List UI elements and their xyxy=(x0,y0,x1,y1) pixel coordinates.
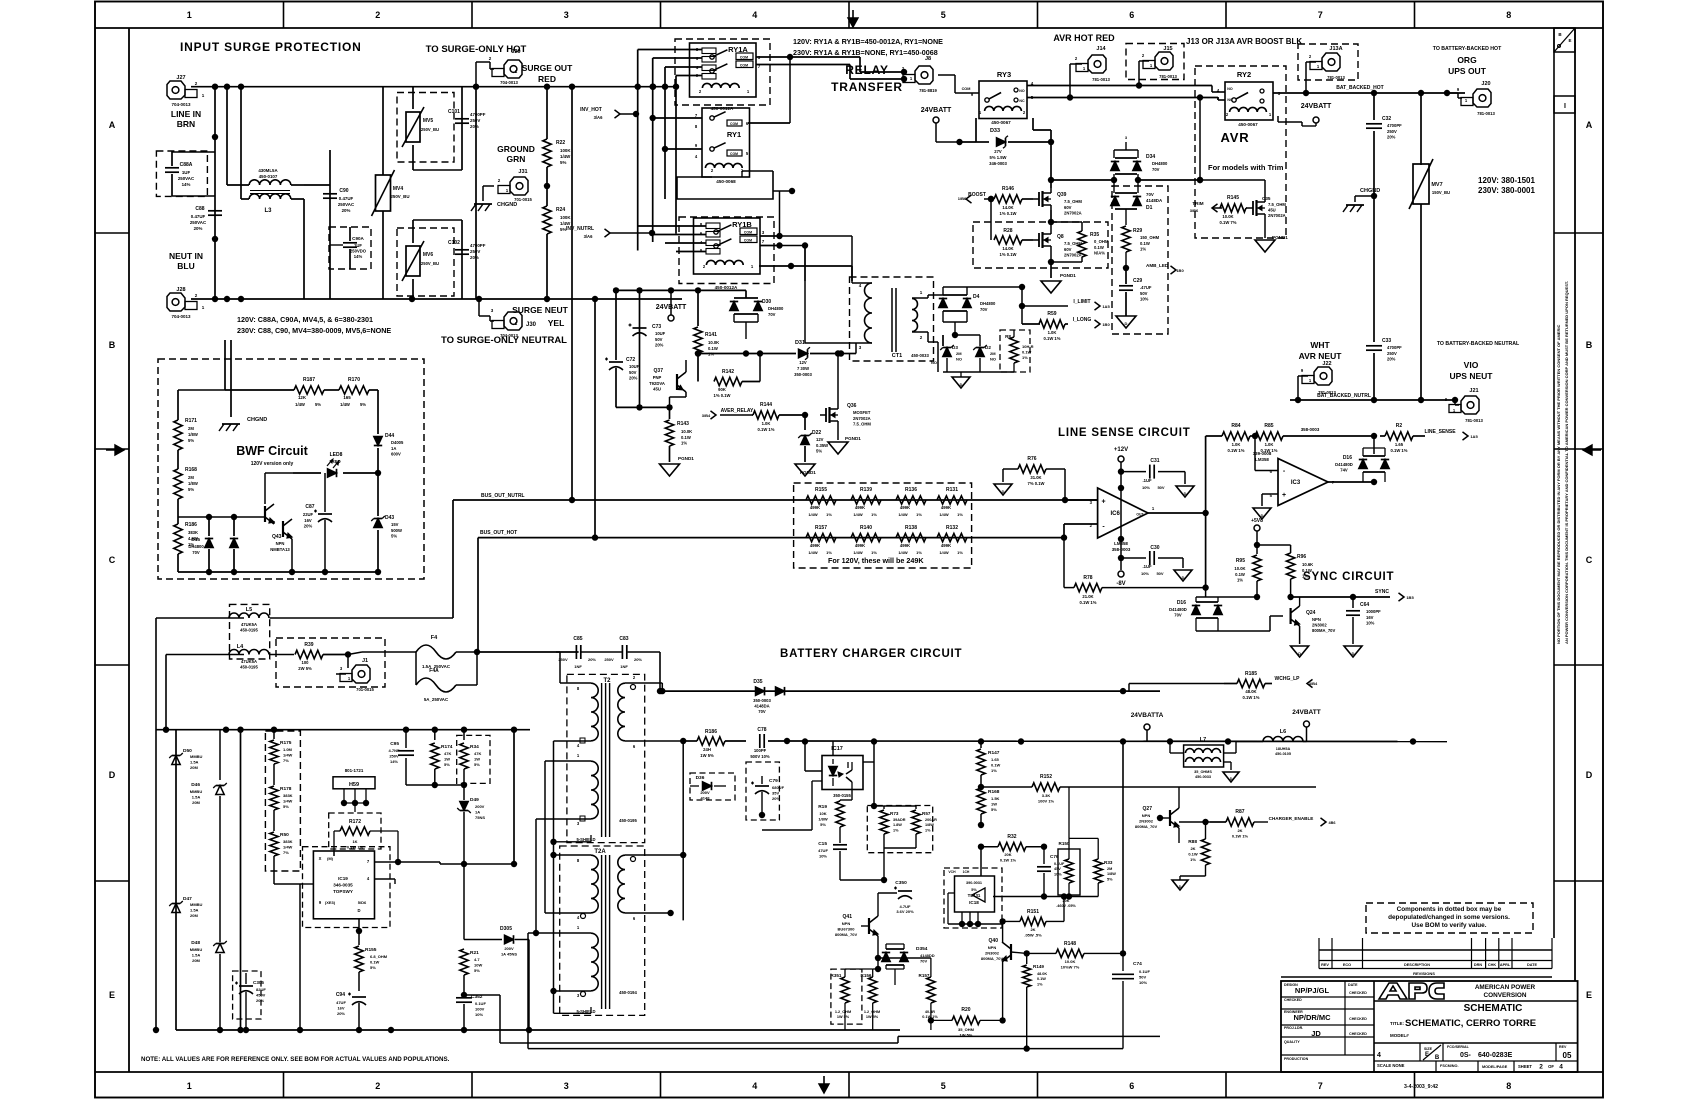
svg-text:4: 4 xyxy=(695,154,698,159)
resistor R157 xyxy=(878,958,938,1030)
svg-text:1NF: 1NF xyxy=(620,664,628,669)
net flag INV_NUTRL xyxy=(566,226,655,239)
resistor R151 xyxy=(999,893,1067,937)
note dotted box xyxy=(1366,903,1533,933)
mosfet Q39 xyxy=(1033,188,1082,222)
svg-text:2: 2 xyxy=(1539,1064,1543,1071)
svg-text:COM: COM xyxy=(730,122,738,126)
svg-text:10.0K: 10.0K xyxy=(681,429,692,434)
resistor R186b xyxy=(174,499,198,572)
svg-text:NO: NO xyxy=(931,360,937,365)
svg-text:DATE: DATE xyxy=(1527,963,1538,967)
svg-text:CHGND: CHGND xyxy=(497,202,517,208)
svg-text:383K: 383K xyxy=(283,839,293,844)
svg-text:GROUND: GROUND xyxy=(497,144,535,154)
wire BUS_OUT_NUTRL xyxy=(453,87,1097,618)
svg-text:450-0194: 450-0194 xyxy=(619,990,637,995)
svg-text:1/4W: 1/4W xyxy=(283,798,293,803)
resistor R33 xyxy=(1069,787,1116,897)
svg-text:1/4W: 1/4W xyxy=(939,512,949,517)
svg-text:NPN: NPN xyxy=(1142,813,1151,818)
wire link surge to charger1 xyxy=(150,618,152,745)
svg-text:REVISIONS: REVISIONS xyxy=(1413,971,1435,976)
svg-text:WCHG_LP: WCHG_LP xyxy=(1275,676,1301,682)
diode D305 xyxy=(464,864,529,1030)
svg-text:J8: J8 xyxy=(925,56,931,62)
svg-text:J20: J20 xyxy=(1481,81,1490,87)
svg-text:Q40: Q40 xyxy=(989,938,999,944)
svg-text:0.1W 1%: 0.1W 1% xyxy=(1044,336,1061,341)
svg-text:0.1W: 0.1W xyxy=(708,346,718,351)
transformer T2 box xyxy=(567,674,645,842)
resistor R32 xyxy=(981,834,1047,863)
label WHT AVR NEUT xyxy=(1299,340,1343,361)
svg-text:D4: D4 xyxy=(973,294,980,300)
capacitor C88A xyxy=(156,151,215,196)
svg-text:R84: R84 xyxy=(1231,423,1240,429)
svg-text:3/B4: 3/B4 xyxy=(702,413,711,418)
svg-text:9: 9 xyxy=(319,900,322,905)
wire q27 to r87 xyxy=(1179,821,1226,823)
wire 24v top rail xyxy=(613,287,746,293)
svg-text:20%: 20% xyxy=(655,343,664,348)
svg-text:X: X xyxy=(319,856,322,861)
svg-text:INV_NUTRL: INV_NUTRL xyxy=(566,226,594,232)
svg-text:230V: 380-0001: 230V: 380-0001 xyxy=(1478,186,1535,195)
svg-text:1%: 1% xyxy=(916,512,922,517)
svg-text:450-0033: 450-0033 xyxy=(911,353,929,358)
svg-text:-: - xyxy=(1283,468,1286,475)
svg-text:L3: L3 xyxy=(264,208,272,214)
wire col 240 xyxy=(237,730,243,1034)
svg-text:701-0015: 701-0015 xyxy=(356,687,374,692)
diode D44 xyxy=(374,433,404,457)
svg-text:7.5_OHM: 7.5_OHM xyxy=(1268,202,1286,207)
svg-text:RED: RED xyxy=(538,74,556,84)
svg-text:499K: 499K xyxy=(855,543,866,548)
svg-text:10%: 10% xyxy=(1140,297,1149,302)
svg-text:PRODUCTION: PRODUCTION xyxy=(1284,1057,1309,1061)
svg-text:450-0033: 450-0033 xyxy=(1195,775,1211,779)
svg-text:8: 8 xyxy=(577,858,580,863)
svg-text:E: E xyxy=(1568,38,1571,43)
svg-text:R139: R139 xyxy=(860,487,872,493)
svg-text:1A: 1A xyxy=(475,809,480,814)
wire charger bottom rail xyxy=(176,1027,900,1033)
svg-text:20%: 20% xyxy=(470,124,479,129)
svg-text:BAT_BACKED_NUTRL: BAT_BACKED_NUTRL xyxy=(1317,393,1371,399)
svg-text:800MA_70V: 800MA_70V xyxy=(835,932,858,937)
svg-text:1.0K: 1.0K xyxy=(1232,442,1241,447)
svg-text:B: B xyxy=(1435,1055,1440,1061)
svg-text:7: 7 xyxy=(1318,1081,1323,1091)
svg-text:4/B4: 4/B4 xyxy=(1309,681,1318,686)
svg-text:D: D xyxy=(1298,652,1301,656)
zener D46 xyxy=(190,730,227,860)
resistor R22 xyxy=(543,87,572,186)
svg-text:20%: 20% xyxy=(1387,357,1396,362)
svg-text:2N7002A: 2N7002A xyxy=(1064,211,1082,216)
svg-text:CT1: CT1 xyxy=(892,353,902,359)
svg-text:1UF: 1UF xyxy=(354,243,362,248)
svg-text:T2A: T2A xyxy=(594,849,606,855)
svg-text:ECO: ECO xyxy=(1343,963,1351,967)
svg-text:7 30W: 7 30W xyxy=(797,366,809,371)
resistor R175 xyxy=(270,730,293,785)
wire vert 528 xyxy=(528,933,898,1049)
svg-text:20%: 20% xyxy=(342,208,351,213)
svg-text:150V_BU: 150V_BU xyxy=(1432,190,1450,195)
svg-text:NC: NC xyxy=(1019,99,1025,103)
revision history table xyxy=(1281,938,1552,977)
svg-text:4: 4 xyxy=(367,876,370,881)
zener D47 xyxy=(169,896,202,918)
svg-text:6: 6 xyxy=(633,916,636,921)
svg-text:R147: R147 xyxy=(988,750,1000,756)
svg-text:1.0K: 1.0K xyxy=(1265,442,1274,447)
svg-text:450-0107: 450-0107 xyxy=(259,174,278,179)
svg-text:F4: F4 xyxy=(431,635,438,641)
wire charger top rail xyxy=(176,727,530,733)
svg-text:20%: 20% xyxy=(194,226,203,231)
power ground PGND1 d22 xyxy=(795,464,816,476)
svg-text:PGND1: PGND1 xyxy=(678,456,694,461)
svg-text:1: 1 xyxy=(202,93,205,98)
wire q37 bottom xyxy=(616,404,670,410)
svg-text:C15: C15 xyxy=(818,841,827,847)
svg-text:R145: R145 xyxy=(1227,195,1239,201)
connector J28 NEUT IN xyxy=(167,287,205,319)
terminal 24VBATT avr xyxy=(1278,103,1332,126)
svg-text:OF: OF xyxy=(1548,1064,1554,1069)
svg-text:6.8_OHM: 6.8_OHM xyxy=(370,954,388,959)
svg-text:1/4W: 1/4W xyxy=(853,550,863,555)
svg-text:E: E xyxy=(1586,990,1592,1000)
capacitor C30 xyxy=(1121,545,1192,581)
svg-text:R136: R136 xyxy=(905,487,917,493)
wire mv column xyxy=(475,87,477,299)
svg-text:230V: RY1A & RY1B=NONE, RY1=45: 230V: RY1A & RY1B=NONE, RY1=450-0068 xyxy=(793,48,938,57)
svg-text:LED8: LED8 xyxy=(330,452,343,458)
resistor R78 xyxy=(1064,538,1209,605)
connector J15 xyxy=(1126,44,1184,86)
svg-text:D305: D305 xyxy=(500,926,512,932)
svg-text:IC6: IC6 xyxy=(1111,511,1121,517)
svg-text:499K: 499K xyxy=(900,505,911,510)
fuse F4A xyxy=(416,652,477,702)
svg-text:10.6K: 10.6K xyxy=(1302,562,1313,567)
wire C88 column xyxy=(212,87,218,299)
svg-text:4148DD: 4148DD xyxy=(920,953,935,958)
svg-text:45U: 45U xyxy=(1268,208,1276,213)
capacitor C72 xyxy=(605,290,640,407)
svg-text:R21: R21 xyxy=(470,950,479,956)
svg-text:D34: D34 xyxy=(1146,154,1155,160)
svg-text:J14: J14 xyxy=(1096,46,1106,52)
svg-text:C35: C35 xyxy=(1262,196,1271,201)
capacitor C350 xyxy=(878,880,928,914)
resistor R24 xyxy=(543,183,572,299)
svg-text:R22: R22 xyxy=(556,140,565,146)
svg-text:L7: L7 xyxy=(1200,737,1206,743)
svg-text:100V: 100V xyxy=(475,1006,485,1011)
svg-text:4.7NF: 4.7NF xyxy=(389,748,400,753)
title AVR xyxy=(1221,130,1250,145)
svg-text:47UK5A: 47UK5A xyxy=(241,659,257,664)
svg-text:R131: R131 xyxy=(946,487,958,493)
svg-text:1%: 1% xyxy=(991,768,997,773)
svg-text:0.1W: 0.1W xyxy=(370,959,380,964)
svg-text:0.1W 1%: 0.1W 1% xyxy=(1232,833,1249,838)
svg-text:C: C xyxy=(1586,555,1593,565)
svg-text:BAT_BACKED_HOT: BAT_BACKED_HOT xyxy=(1336,85,1383,91)
svg-text:MMBU: MMBU xyxy=(190,789,203,794)
svg-text:2: 2 xyxy=(711,168,714,173)
svg-text:LINE_SENSE: LINE_SENSE xyxy=(1424,429,1456,435)
svg-text:2: 2 xyxy=(195,81,198,86)
svg-text:8: 8 xyxy=(1506,10,1511,20)
svg-text:0.47UF: 0.47UF xyxy=(339,196,354,201)
svg-text:N/A%: N/A% xyxy=(1094,251,1105,256)
svg-text:1%: 1% xyxy=(1037,982,1043,986)
svg-text:R19: R19 xyxy=(818,804,827,810)
svg-text:1A: 1A xyxy=(391,446,396,451)
svg-text:5%: 5% xyxy=(991,807,997,812)
svg-text:5: 5 xyxy=(746,151,749,156)
APC logo xyxy=(1379,983,1444,999)
opamp IC3 xyxy=(1253,436,1335,519)
svg-text:3: 3 xyxy=(340,666,343,671)
svg-text:SCHEMATIC: SCHEMATIC xyxy=(1464,1003,1523,1014)
svg-text:500V 10%: 500V 10% xyxy=(750,754,770,759)
svg-text:14%: 14% xyxy=(390,759,398,764)
svg-text:LINE IN: LINE IN xyxy=(171,109,201,119)
svg-text:7: 7 xyxy=(762,239,765,244)
svg-text:D: D xyxy=(960,383,963,387)
svg-text:100PF: 100PF xyxy=(754,748,767,753)
svg-text:R156: R156 xyxy=(861,973,872,978)
svg-text:10%: 10% xyxy=(1139,980,1147,985)
power ground PGND1 r143 xyxy=(660,456,695,476)
svg-text:1CH: 1CH xyxy=(963,870,970,874)
svg-text:250VAC: 250VAC xyxy=(190,220,207,225)
svg-text:MMBU: MMBU xyxy=(190,754,203,759)
svg-text:R170: R170 xyxy=(348,377,360,383)
svg-text:90K: 90K xyxy=(718,387,726,392)
svg-text:J22: J22 xyxy=(1322,361,1331,367)
junction dots hot rail xyxy=(212,84,656,90)
svg-text:R149: R149 xyxy=(1033,964,1044,969)
svg-text:20%: 20% xyxy=(772,796,780,801)
svg-text:5%: 5% xyxy=(283,804,289,809)
resistor R84 xyxy=(1206,423,1255,453)
svg-text:12V: 12V xyxy=(816,437,824,442)
svg-text:R152: R152 xyxy=(1040,774,1052,780)
svg-text:8: 8 xyxy=(1506,1081,1511,1091)
dashed box divider resistors xyxy=(794,483,972,568)
svg-text:1: 1 xyxy=(1150,63,1153,68)
zener D3 xyxy=(931,335,962,372)
varistor MV5 xyxy=(397,87,462,170)
svg-text:250V: 250V xyxy=(1387,129,1397,134)
svg-text:3-4-2003_9:42: 3-4-2003_9:42 xyxy=(1404,1084,1438,1090)
svg-text:20M: 20M xyxy=(190,765,198,770)
svg-text:1/8W: 1/8W xyxy=(188,481,198,486)
svg-text:MMBU: MMBU xyxy=(190,947,203,952)
varistor MV7 xyxy=(1409,90,1450,300)
svg-text:+: + xyxy=(1282,492,1286,499)
svg-text:7: 7 xyxy=(367,859,370,864)
svg-text:346-0003: 346-0003 xyxy=(989,161,1007,166)
svg-text:781-8819: 781-8819 xyxy=(919,88,937,93)
svg-text:10%: 10% xyxy=(1142,485,1150,490)
svg-text:0.35W: 0.35W xyxy=(816,443,828,448)
svg-text:7: 7 xyxy=(1318,10,1323,20)
svg-text:Q43: Q43 xyxy=(272,534,282,540)
svg-text:1%: 1% xyxy=(871,512,877,517)
svg-text:0.1W: 0.1W xyxy=(681,435,691,440)
svg-text:10.0K: 10.0K xyxy=(1222,214,1233,219)
svg-text:1%: 1% xyxy=(925,828,931,832)
svg-text:2N7002A: 2N7002A xyxy=(853,416,871,421)
wire IC6 out xyxy=(1148,436,1209,588)
svg-text:4700PF: 4700PF xyxy=(1387,123,1402,128)
svg-text:COM: COM xyxy=(962,87,971,91)
svg-text:R185: R185 xyxy=(1245,671,1257,677)
terminal 24VBATT ry3 xyxy=(921,107,963,145)
svg-text:1% 0.1W: 1% 0.1W xyxy=(1000,211,1017,216)
svg-text:75NS: 75NS xyxy=(475,815,485,820)
wire RY1 coil loop xyxy=(665,171,795,199)
svg-text:200V: 200V xyxy=(700,790,710,795)
wire charger left entry xyxy=(151,688,176,730)
svg-text:250VDO: 250VDO xyxy=(350,249,367,254)
chassis ground CHGND bwf xyxy=(219,417,267,431)
svg-text:3: 3 xyxy=(577,821,580,826)
diode pair D4 xyxy=(939,284,1025,335)
junction dots neutral rail xyxy=(212,296,598,302)
svg-text:70V: 70V xyxy=(758,709,766,714)
svg-text:1: 1 xyxy=(920,290,923,295)
svg-text:250VAC: 250VAC xyxy=(338,202,355,207)
svg-text:200V: 200V xyxy=(475,804,485,809)
svg-text:Q24: Q24 xyxy=(1306,610,1316,616)
resistor R8 xyxy=(1000,330,1034,372)
svg-text:2N3002: 2N3002 xyxy=(1312,623,1327,628)
capacitor C87 xyxy=(303,473,332,572)
svg-text:1/4W: 1/4W xyxy=(939,550,949,555)
zone I box xyxy=(1554,96,1575,113)
svg-text:2: 2 xyxy=(920,335,923,340)
svg-text:9: 9 xyxy=(1301,368,1304,373)
wires BWF entry xyxy=(225,340,231,417)
svg-text:R155: R155 xyxy=(815,487,827,493)
svg-text:346-0035: 346-0035 xyxy=(333,882,353,887)
svg-text:120V: C88A, C90A, MV4,5, & 6=3: 120V: C88A, C90A, MV4,5, & 6=380-2301 xyxy=(237,315,373,324)
svg-text:450-0105: 450-0105 xyxy=(1275,752,1291,756)
svg-text:0.1W 1%: 0.1W 1% xyxy=(758,427,775,432)
ic IC18 TL431 xyxy=(944,844,1003,929)
svg-text:D1: D1 xyxy=(1146,205,1153,211)
svg-text:C101: C101 xyxy=(448,109,460,115)
svg-text:TITLE:: TITLE: xyxy=(1390,1021,1404,1026)
svg-text:3: 3 xyxy=(577,993,580,998)
svg-text:1/4W: 1/4W xyxy=(898,550,908,555)
svg-text:0.1W 1%: 0.1W 1% xyxy=(1000,858,1017,863)
svg-text:C85: C85 xyxy=(573,636,582,642)
svg-text:3/A6: 3/A6 xyxy=(584,234,594,239)
svg-text:450-0195: 450-0195 xyxy=(240,628,258,633)
svg-text:3/B6: 3/B6 xyxy=(1190,208,1199,213)
svg-text:3: 3 xyxy=(762,230,765,235)
svg-text:1.5A: 1.5A xyxy=(190,759,199,764)
svg-text:COM: COM xyxy=(744,231,752,235)
resistor R19 xyxy=(818,800,852,843)
svg-text:AMB_LED: AMB_LED xyxy=(1146,263,1169,268)
svg-text:165: 165 xyxy=(343,395,351,400)
svg-text:1: 1 xyxy=(1152,506,1155,511)
label TO SURGE-ONLY NEUTRAL xyxy=(441,335,567,346)
svg-text:NPN: NPN xyxy=(988,945,997,950)
svg-text:450-0067: 450-0067 xyxy=(991,120,1011,125)
svg-text:2K: 2K xyxy=(1237,828,1242,833)
svg-text:C31: C31 xyxy=(1150,458,1159,464)
svg-text:100K: 100K xyxy=(560,215,571,220)
svg-text:2: 2 xyxy=(1075,56,1078,61)
svg-text:COM: COM xyxy=(744,239,752,243)
svg-text:R174: R174 xyxy=(441,744,453,750)
svg-text:50V: 50V xyxy=(1157,485,1164,490)
svg-text:RELAY: RELAY xyxy=(845,63,889,77)
svg-text:RY3: RY3 xyxy=(997,70,1011,79)
svg-text:AVR NEUT: AVR NEUT xyxy=(1299,351,1343,361)
svg-text:2: 2 xyxy=(1023,110,1026,115)
svg-text:200V: 200V xyxy=(504,946,514,951)
svg-text:UPS NEUT: UPS NEUT xyxy=(1450,371,1494,381)
wire avr d34 link xyxy=(1197,94,1265,183)
svg-text:450-0012A: 450-0012A xyxy=(715,285,738,290)
svg-text:IC19: IC19 xyxy=(338,876,348,881)
plot date stamp xyxy=(1404,1084,1438,1090)
svg-text:0.1W: 0.1W xyxy=(1037,977,1046,981)
resistor R168 xyxy=(174,450,198,499)
svg-text:1/4W: 1/4W xyxy=(283,752,293,757)
resistor R148 xyxy=(1027,941,1127,969)
wire 1123 col xyxy=(1120,738,1126,953)
svg-text:450-0068: 450-0068 xyxy=(716,179,736,184)
transistor Q43 xyxy=(257,473,293,572)
svg-text:100V 1%: 100V 1% xyxy=(1038,799,1055,804)
svg-text:(M): (M) xyxy=(327,856,334,861)
svg-text:J27: J27 xyxy=(176,75,185,81)
svg-text:D31: D31 xyxy=(795,340,805,346)
svg-text:50V: 50V xyxy=(1156,571,1163,576)
svg-text:2M: 2M xyxy=(990,351,996,356)
svg-text:J13 OR J13A AVR BOOST BLK: J13 OR J13A AVR BOOST BLK xyxy=(1186,37,1302,46)
wire avr neut column xyxy=(1366,196,1382,403)
svg-text:1/4W: 1/4W xyxy=(560,154,571,159)
svg-text:250VAC: 250VAC xyxy=(178,176,195,181)
svg-text:20%: 20% xyxy=(629,376,638,381)
svg-text:1.2_OHM: 1.2_OHM xyxy=(835,1010,851,1014)
copyright vertical text xyxy=(1556,281,1569,644)
svg-text:20%: 20% xyxy=(470,255,479,260)
svg-text:D4005: D4005 xyxy=(391,440,404,445)
svg-text:1.0K: 1.0K xyxy=(762,421,771,426)
svg-text:R142: R142 xyxy=(722,369,734,375)
resistor R155v xyxy=(355,946,388,991)
net flag TRIM xyxy=(1190,201,1222,213)
